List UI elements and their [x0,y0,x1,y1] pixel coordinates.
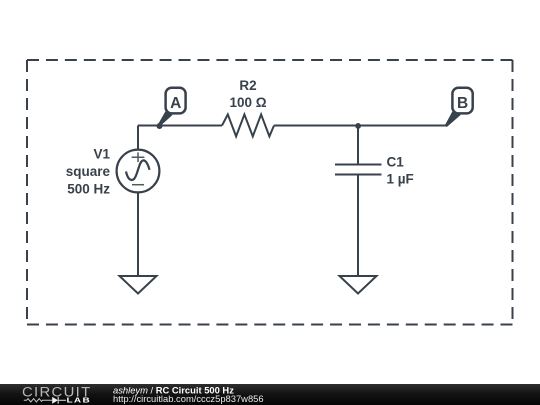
ground GND1 [120,276,157,294]
capacitor C1 top plate [335,164,382,166]
node B label box [452,88,472,114]
CircuitLab logo resistor squiggle [24,399,52,402]
junction node at capacitor [355,123,361,129]
svg-text:1 µF: 1 µF [387,171,414,186]
schematic boundary dashed frame [27,60,513,325]
CircuitLab logo diode [52,397,58,404]
svg-text:B: B [457,95,468,112]
resistor R2 [222,114,274,136]
svg-text:R2: R2 [239,78,256,93]
svg-text:C1: C1 [387,154,405,169]
V1 sine wave [126,160,150,180]
wire capacitor bottom vertical [357,175,359,277]
wire capacitor top vertical [357,126,359,165]
node B flag tail [446,112,460,126]
node A label box [166,88,186,114]
svg-text:100 Ω: 100 Ω [229,95,266,110]
svg-text:V1: V1 [93,147,110,162]
footer bar [0,384,540,405]
svg-text:A: A [170,95,181,112]
V1 plus sign [132,152,145,162]
wire V1 top vertical [137,126,139,151]
svg-text:LAB: LAB [67,395,92,404]
ground GND2 [340,276,377,294]
capacitor C1 bottom plate [335,174,382,176]
svg-text:http://circuitlab.com/cccz5p83: http://circuitlab.com/cccz5p837w856 [113,393,264,404]
svg-text:square: square [66,164,111,179]
V1 minus sign [132,184,144,186]
wire top horizontal right segment [274,125,447,127]
node A junction dot [157,123,163,129]
wire V1 bottom vertical [137,193,139,277]
wire top horizontal left segment [138,125,222,127]
node A flag tail [159,112,172,125]
svg-text:500 Hz: 500 Hz [67,181,110,196]
voltage source V1 body [117,150,160,193]
